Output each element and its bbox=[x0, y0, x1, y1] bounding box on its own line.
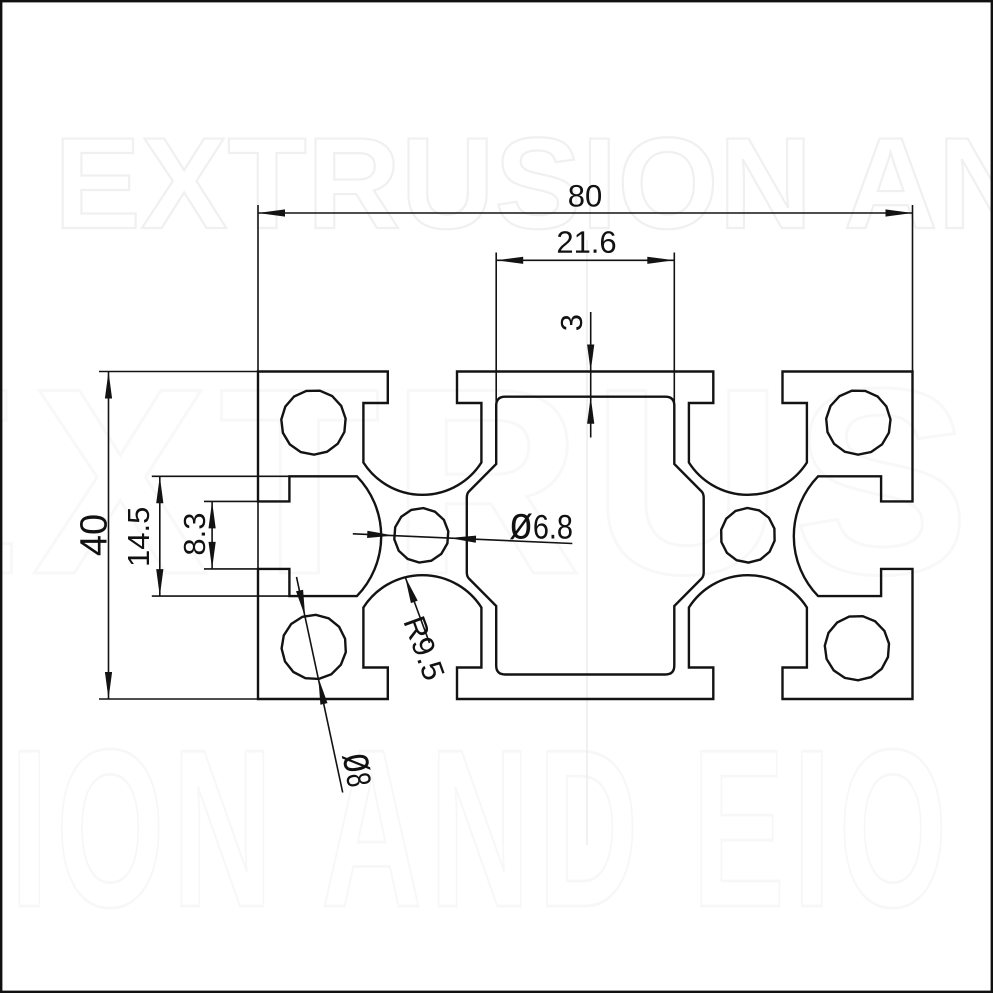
svg-text:21.6: 21.6 bbox=[556, 225, 616, 260]
svg-text:14.5: 14.5 bbox=[121, 507, 156, 567]
svg-text:3: 3 bbox=[554, 314, 589, 331]
svg-text:8.3: 8.3 bbox=[177, 512, 212, 555]
svg-text:40: 40 bbox=[74, 514, 116, 556]
svg-text:80: 80 bbox=[568, 178, 603, 213]
svg-text:EXTRUSION AND: EXTRUSION AND bbox=[54, 110, 993, 256]
svg-text:ION AND EIO: ION AND EIO bbox=[10, 703, 955, 954]
